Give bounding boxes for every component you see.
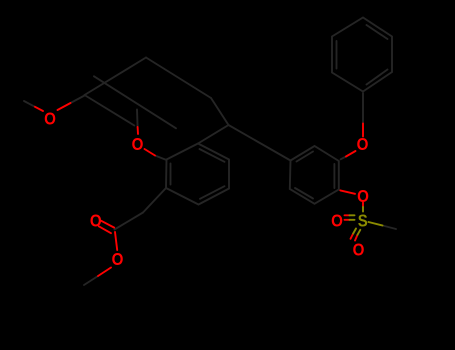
- sulfonyl S=O bottom double red halves: [351, 234, 354, 239]
- wire Lb diagonal: [94, 76, 176, 128]
- svg-text:O: O: [132, 134, 144, 154]
- svg-text:O: O: [331, 210, 343, 230]
- wire ring Y to C2: [143, 188, 166, 213]
- wire peak descending: [146, 58, 211, 99]
- wire O2 upper red tick: [137, 127, 139, 134]
- svg-text:O: O: [44, 108, 56, 128]
- wire O4-S olive half: [362, 207, 364, 212]
- sulfonyl S=O left double olive halves: [350, 214, 355, 216]
- sulfonyl S=O bottom double olive halves: [353, 229, 356, 234]
- wire O1-V1 outer half: [71, 96, 85, 104]
- svg-text:S: S: [358, 211, 368, 231]
- wire OMe methyl above O2: [136, 110, 139, 128]
- right ring inner aromatic line top-left: [297, 152, 314, 162]
- benzyl ring inner line E5: [336, 41, 338, 69]
- wire O1-V1 red half: [58, 103, 71, 110]
- wire B to bridge Vb: [198, 125, 229, 144]
- right ring inner aromatic line bottom-left: [295, 188, 313, 199]
- left ring inner aromatic line e2: [200, 149, 225, 162]
- benzyl ring inner line E1: [367, 70, 388, 85]
- wire O4-S red half: [362, 203, 364, 208]
- wire ester OCH3 gray half: [84, 276, 98, 285]
- left ring inner aromatic line e6: [170, 164, 172, 185]
- left ring inner aromatic line e4: [200, 186, 225, 199]
- wire C2 to C1: [115, 213, 144, 230]
- wire peak connector to bridge: [211, 98, 229, 125]
- right ring inner aromatic line right edge: [333, 164, 335, 188]
- wire V1 up-right Lup: [85, 58, 147, 96]
- wire benzyl CH2 vertical gray: [362, 93, 364, 124]
- svg-text:O: O: [353, 239, 365, 259]
- benzene left ring: [166, 144, 229, 205]
- sulfonyl S=O left double red halves: [345, 214, 350, 216]
- wire O3-CH2 red half: [362, 124, 364, 137]
- wire bridge Vb to right ring: [229, 125, 291, 161]
- wire C1-O6 ester: [115, 232, 117, 250]
- wire V1 long diagonal La: [85, 95, 135, 126]
- wire O2-ring gray half: [155, 156, 167, 161]
- wire CH3-O1 outer half: [24, 101, 35, 107]
- wire S-CH3 olive half: [369, 222, 383, 226]
- wire ester OCH3 red half: [98, 268, 111, 277]
- benzyl ring inner line E3: [367, 25, 388, 39]
- wire ring-O4 red: [340, 190, 355, 193]
- svg-text:O: O: [357, 134, 369, 154]
- svg-text:O: O: [357, 186, 369, 206]
- svg-text:O: O: [90, 210, 102, 230]
- carbonyl C=O double bond: [101, 221, 114, 228]
- wire O3-ring gray half: [341, 157, 346, 160]
- wire O2-ring red half: [145, 149, 156, 156]
- wire CH3-O1 red half: [35, 107, 43, 111]
- wire S-CH3 gray half: [383, 226, 397, 230]
- svg-text:O: O: [112, 249, 124, 269]
- wire O3-ring red half: [346, 151, 356, 157]
- benzene benzyl ring: [332, 18, 392, 92]
- benzene right ring: [290, 146, 339, 204]
